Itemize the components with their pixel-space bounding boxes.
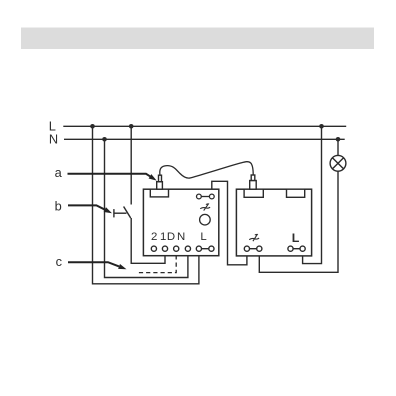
svg-text:a: a bbox=[55, 165, 63, 180]
svg-text:N: N bbox=[49, 132, 58, 147]
svg-text:c: c bbox=[56, 254, 63, 269]
svg-text:1: 1 bbox=[160, 231, 166, 243]
svg-text:2: 2 bbox=[151, 231, 157, 243]
svg-text:L: L bbox=[200, 231, 206, 243]
svg-text:D: D bbox=[167, 231, 175, 243]
svg-text:b: b bbox=[55, 198, 62, 213]
svg-text:N: N bbox=[177, 231, 185, 243]
svg-text:L: L bbox=[292, 231, 300, 245]
